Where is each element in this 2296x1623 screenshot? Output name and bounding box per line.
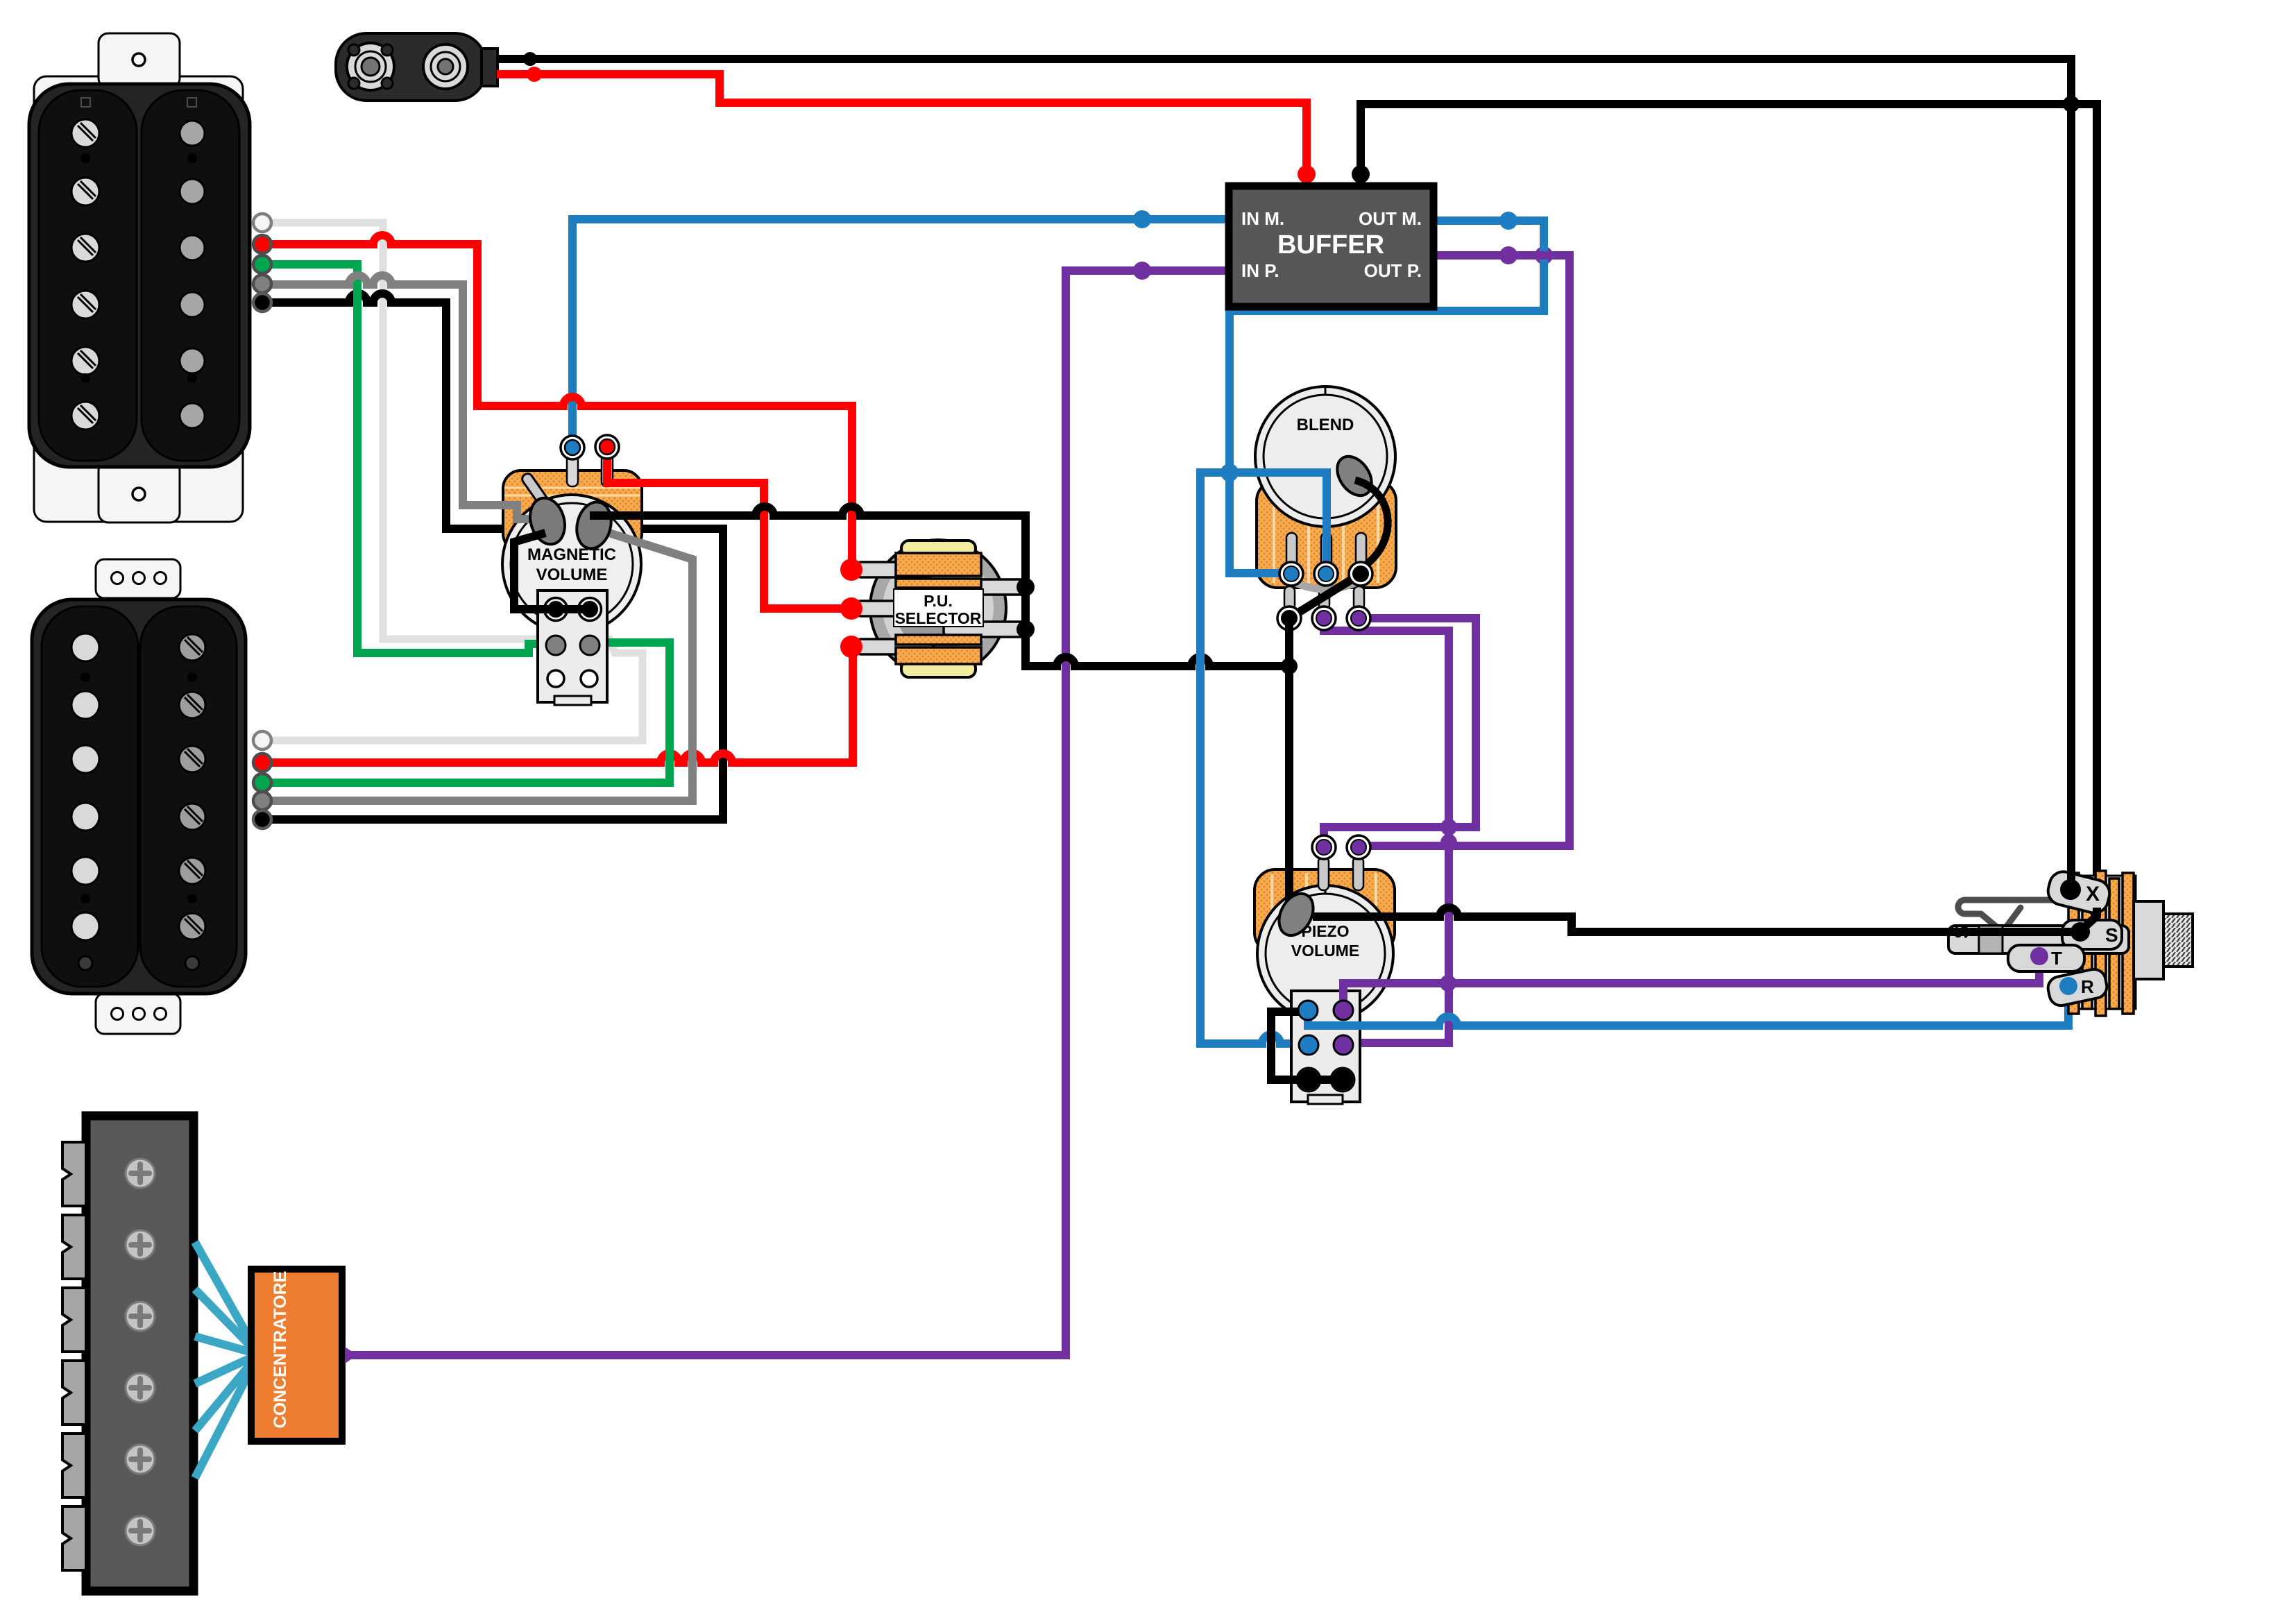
wire: buffer OUT P. purple to piezo eyelet 2	[1359, 255, 1570, 846]
wire: buffer ground black to jack S (drop to lug)	[2081, 908, 2097, 931]
wire: bridge pickup gray to mag volume left lug	[262, 275, 545, 519]
output jack threaded ferrule	[2163, 914, 2193, 967]
junction dot battery black	[523, 52, 537, 66]
piezo volume pot body	[1255, 869, 1395, 1021]
blend wiper blob	[1330, 450, 1379, 502]
junction dot purple at blue crossing	[1535, 246, 1553, 264]
junction dot blue at blend	[1221, 464, 1239, 482]
piezo bridge saddles	[62, 1142, 86, 1570]
selector orange wafers	[896, 553, 981, 664]
wire: blend bottom lug2 purple	[1324, 618, 1449, 1045]
junction dot battery red	[527, 67, 542, 82]
wire: blend lug1 black down to piezo wiper	[1289, 618, 1295, 910]
wire: neck pickup gray to mag volume right lug	[262, 529, 692, 801]
blend pot pins	[1284, 533, 1366, 610]
piezo DPDT lugs	[1297, 1001, 1354, 1091]
output jack spring contact	[1958, 900, 2071, 932]
svg-text:S: S	[2105, 924, 2118, 946]
junction dot black at buffer top	[1352, 165, 1370, 183]
mag volume blue eyelet	[561, 436, 584, 459]
BUFFER box	[1229, 186, 1434, 307]
selector terminal tabs left	[856, 562, 933, 654]
wire: buffer OUT M. blue to blend lugs	[1230, 221, 1544, 573]
output jack S plug shaft	[1948, 925, 2129, 953]
wire: blend wiper jumper to lug 3	[1355, 480, 1388, 566]
junction dot black top right	[2063, 96, 2080, 112]
junction dot purple IN P.	[1133, 262, 1151, 280]
wire: mag volume wiper black to selector common and blend	[590, 507, 1289, 666]
svg-text:OUT P.: OUT P.	[1364, 260, 1422, 281]
blend pot body	[1255, 386, 1396, 588]
magnetic volume pot body	[502, 470, 642, 634]
jack terminal dots and labels	[2030, 879, 2118, 997]
output jack wafers	[2068, 871, 2136, 1016]
svg-text:BUFFER: BUFFER	[1277, 230, 1384, 260]
wire: mag volume blue to buffer IN M.	[572, 219, 1233, 452]
piezo DPDT switch plate	[1291, 991, 1360, 1104]
mag volume pot lug wings	[525, 494, 616, 552]
selector label plate	[894, 589, 983, 627]
humbucker bridge pickup body	[29, 84, 250, 467]
svg-text:MAGNETIC: MAGNETIC	[527, 545, 616, 564]
piezo bridge bar	[86, 1116, 194, 1591]
neck pickup coil dots	[78, 672, 199, 970]
bridge pickup pole screws (slotted, left coil)	[71, 119, 99, 430]
wire: piezo DPDT row3 jumper to row1	[1271, 1012, 1343, 1080]
selector black terminal dots	[1017, 578, 1035, 596]
svg-text:IN M.: IN M.	[1241, 208, 1284, 229]
wire: neck pickup red to selector lug 3	[262, 647, 853, 763]
mag volume DPDT switch plate	[538, 590, 607, 705]
wire: battery black to jack X	[497, 59, 2071, 881]
blend top lug eyelets	[1279, 562, 1372, 586]
neck pickup wire terminals	[253, 731, 271, 829]
svg-text:VOLUME: VOLUME	[1291, 942, 1359, 960]
output jack S lug	[2062, 920, 2122, 949]
wire: bridge pickup red to selector lug 1	[262, 235, 852, 570]
mag volume eyelet pins	[567, 454, 613, 486]
neck pickup pole slugs (left coil)	[71, 634, 99, 940]
piezo wiper blob	[1273, 887, 1320, 941]
wire: blend lug3 to bottom lug1 diagonal	[1289, 574, 1361, 618]
9V battery clip	[336, 33, 498, 101]
humbucker neck pickup tabs	[96, 559, 180, 1034]
junction dot purple OUT P.	[1499, 246, 1517, 264]
wire: piezo row1 blue to jack R	[1308, 986, 2068, 1026]
wire: mag volume red eyelet to selector lug 2	[607, 450, 851, 609]
output jack R lug	[2046, 967, 2109, 1008]
wire: neck pickup green to mag volume switch	[262, 643, 670, 783]
wire: bridge pickup green to mag volume switch	[262, 264, 556, 653]
output jack body	[2134, 901, 2163, 979]
mag volume red eyelet	[595, 435, 619, 459]
mag volume DPDT lugs	[545, 598, 602, 688]
humbucker bridge pickup mounting ring	[34, 33, 243, 522]
wire: mag volume pot lug to DPDT row1	[514, 533, 590, 609]
wire: battery red to buffer top	[497, 74, 1307, 189]
wire: buffer ground black to jack S (upper run)	[1361, 104, 2097, 912]
piezo pot eyelets	[1312, 835, 1370, 859]
blend bottom lug eyelets	[1277, 606, 1370, 630]
selector yellow caps	[901, 541, 976, 677]
selector terminal tabs right	[944, 579, 1028, 637]
bridge pickup coil dots	[80, 153, 197, 383]
svg-text:X: X	[2086, 883, 2100, 906]
CONCENTRATORE box	[251, 1269, 342, 1441]
junction dot blue IN M.	[1133, 210, 1151, 228]
svg-text:R: R	[2081, 976, 2094, 997]
junction dot purple T line	[1440, 975, 1456, 992]
output jack X lug	[2046, 869, 2113, 916]
junction dot blue OUT M.	[1499, 212, 1517, 230]
svg-text:OUT M.: OUT M.	[1359, 208, 1422, 229]
junction dot red at buffer top	[1298, 165, 1316, 183]
humbucker neck pickup body	[32, 600, 246, 994]
bridge pickup wire terminals	[253, 214, 271, 312]
junction dot black at blend lug1 drop	[1281, 658, 1298, 674]
selector red terminal dots	[840, 559, 862, 658]
piezo bridge screws	[126, 1159, 155, 1545]
wire: blend bottom lug3 purple to piezo eyelet 1	[1324, 618, 1476, 845]
wire: piezo row1 purple to jack T	[1343, 956, 2039, 1010]
svg-text:SELECTOR: SELECTOR	[895, 609, 982, 627]
svg-text:IN P.: IN P.	[1241, 260, 1279, 281]
wire: blue branch to piezo DPDT row2	[1200, 473, 1309, 1044]
piezo pot eyelet pins	[1318, 857, 1363, 890]
svg-text:VOLUME: VOLUME	[536, 566, 608, 584]
blend pot keeper bar	[1289, 580, 1361, 589]
svg-text:CONCENTRATORE: CONCENTRATORE	[271, 1271, 290, 1429]
svg-text:BLEND: BLEND	[1297, 416, 1354, 434]
mag volume pot shaft	[520, 472, 549, 507]
neck pickup pole screws (slotted, right coil)	[179, 634, 205, 940]
svg-text:T: T	[2051, 948, 2062, 969]
P.U. selector body	[870, 540, 1006, 676]
svg-text:P.U.: P.U.	[924, 592, 953, 610]
piezo saddle wires (cyan fan)	[195, 1242, 257, 1478]
wire: bridge pickup white to neck pickup white	[262, 223, 643, 740]
junction dots purple right chain	[1440, 819, 1457, 835]
wire: piezo wiper black to jack S	[1313, 908, 2075, 932]
bridge pickup pole slugs (right coil)	[180, 121, 205, 428]
wire: piezo output purple from CONCENTRATORE to buffer IN P.	[345, 271, 1233, 1363]
wire: blue branch to blend lug 2	[1230, 473, 1327, 572]
wire: bridge pickup black + neck pickup black to pot casing	[262, 294, 723, 819]
output jack T lug	[2008, 945, 2084, 971]
